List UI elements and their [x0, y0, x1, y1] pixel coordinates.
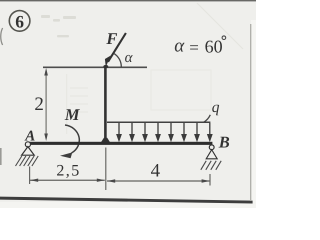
- arrow right of 4: [202, 179, 210, 182]
- dimension line 2 (vertical): [45, 71, 47, 139]
- svg-text:6: 6: [15, 11, 24, 31]
- svg-text:B: B: [218, 133, 230, 152]
- arrow right of 2,5: [97, 179, 105, 182]
- svg-text:q: q: [212, 99, 220, 116]
- ghost text smudges top-left (bleed-through): [41, 15, 76, 37]
- svg-text:=: =: [189, 38, 199, 57]
- pin support A circle: [25, 142, 30, 147]
- roller support B circle: [209, 145, 214, 150]
- dimension line 2,5: [30, 179, 105, 181]
- distributed load top line: [107, 121, 210, 123]
- force F arrowhead: [105, 56, 111, 67]
- left edge mark 2 (scan artifact): [0, 148, 2, 165]
- angle arc at post top: [114, 53, 121, 67]
- dimension tick left: [29, 167, 31, 185]
- junction blob: [103, 65, 108, 68]
- ghost ladder (bleed-through): [67, 74, 88, 134]
- arrow up: [44, 68, 48, 76]
- frame border bottom: [0, 197, 253, 204]
- top rail: [43, 66, 147, 68]
- svg-text:F: F: [105, 29, 117, 48]
- dimension tick right: [209, 174, 211, 186]
- gusset at post base: [100, 138, 111, 144]
- ghost rectangle right (bleed-through): [151, 70, 211, 110]
- frame border top: [0, 0, 256, 1]
- left edge mark (scan artifact): [1, 28, 3, 45]
- svg-text:60: 60: [205, 37, 223, 57]
- svg-text:4: 4: [151, 160, 161, 181]
- arrow down: [44, 134, 48, 142]
- svg-text:α: α: [125, 50, 134, 66]
- svg-text:α: α: [174, 36, 185, 57]
- hatching at A: [16, 156, 39, 166]
- dimension tick middle: [105, 148, 107, 191]
- moment arc: [65, 125, 79, 153]
- problem number badge circle 6: [9, 11, 30, 32]
- hatching at B: [201, 161, 221, 170]
- moment arrowhead: [60, 152, 72, 158]
- arrow left of 4: [107, 179, 115, 182]
- arrow left of 2,5: [30, 179, 38, 182]
- dimension line 4: [107, 180, 210, 182]
- roller support B triangle: [206, 150, 217, 159]
- load arrows q: [117, 123, 212, 140]
- svg-text:2: 2: [34, 94, 44, 115]
- force F line: [108, 33, 126, 62]
- svg-text:2,5: 2,5: [56, 163, 80, 180]
- pin support A triangle: [22, 147, 35, 156]
- svg-text:M: M: [64, 105, 81, 124]
- frame border right: [250, 24, 252, 201]
- q leader curve: [204, 115, 211, 122]
- beam: [27, 142, 213, 145]
- ghost diagonal top-right (bleed-through): [197, 3, 243, 49]
- post (vertical column): [104, 67, 107, 139]
